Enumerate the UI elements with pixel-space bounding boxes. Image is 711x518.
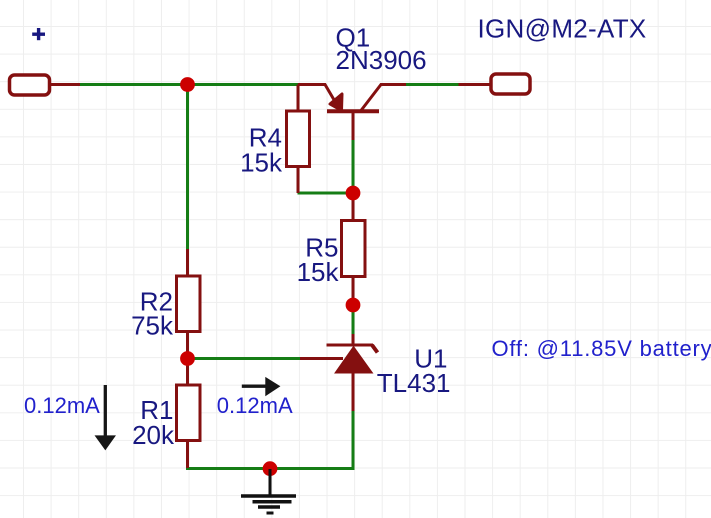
svg-text:20k: 20k [132, 420, 175, 450]
connector pad P2 IGN@M2-ATX [459, 74, 531, 94]
wire top rail left [80, 83, 298, 86]
svg-text:15k: 15k [297, 257, 340, 287]
ground [241, 469, 296, 513]
wire R5 to U1 cathode [352, 305, 355, 334]
wire collector to connector [406, 83, 459, 86]
node junction top [180, 77, 195, 92]
svg-text:15k: 15k [240, 147, 283, 177]
op-amp U1 TL431 [300, 334, 378, 411]
resistor R5 [342, 193, 366, 305]
svg-text:Off: @11.85V battery: Off: @11.85V battery [492, 336, 711, 361]
current arrow down 0.12mA [96, 385, 116, 450]
resistor R1 [177, 359, 201, 469]
svg-text:0.12mA: 0.12mA [24, 393, 100, 418]
resistor R2 [177, 249, 201, 359]
wire left vertical to R2 [186, 85, 189, 250]
node junction R2/R1/ref [180, 351, 195, 366]
svg-text:0.12mA: 0.12mA [217, 393, 293, 418]
label + [32, 28, 45, 40]
wire base vertical [352, 140, 355, 193]
node junction R5/U1 [346, 298, 361, 313]
wire ref horizontal [188, 357, 301, 360]
wire anode down [352, 411, 355, 469]
wire R4 bottom horizontal [298, 192, 354, 195]
node junction ground [263, 461, 278, 476]
svg-text:TL431: TL431 [377, 368, 451, 398]
svg-text:IGN@M2-ATX: IGN@M2-ATX [478, 14, 647, 44]
resistor R4 [287, 85, 310, 194]
svg-text:2N3906: 2N3906 [336, 45, 427, 75]
transistor Q1 [298, 85, 406, 141]
current arrow right 0.12mA [242, 378, 280, 396]
node junction R4/R5/base [346, 186, 361, 201]
connector pad P1 [10, 75, 81, 95]
wire bottom rail [186, 467, 355, 470]
svg-text:75k: 75k [131, 311, 174, 341]
